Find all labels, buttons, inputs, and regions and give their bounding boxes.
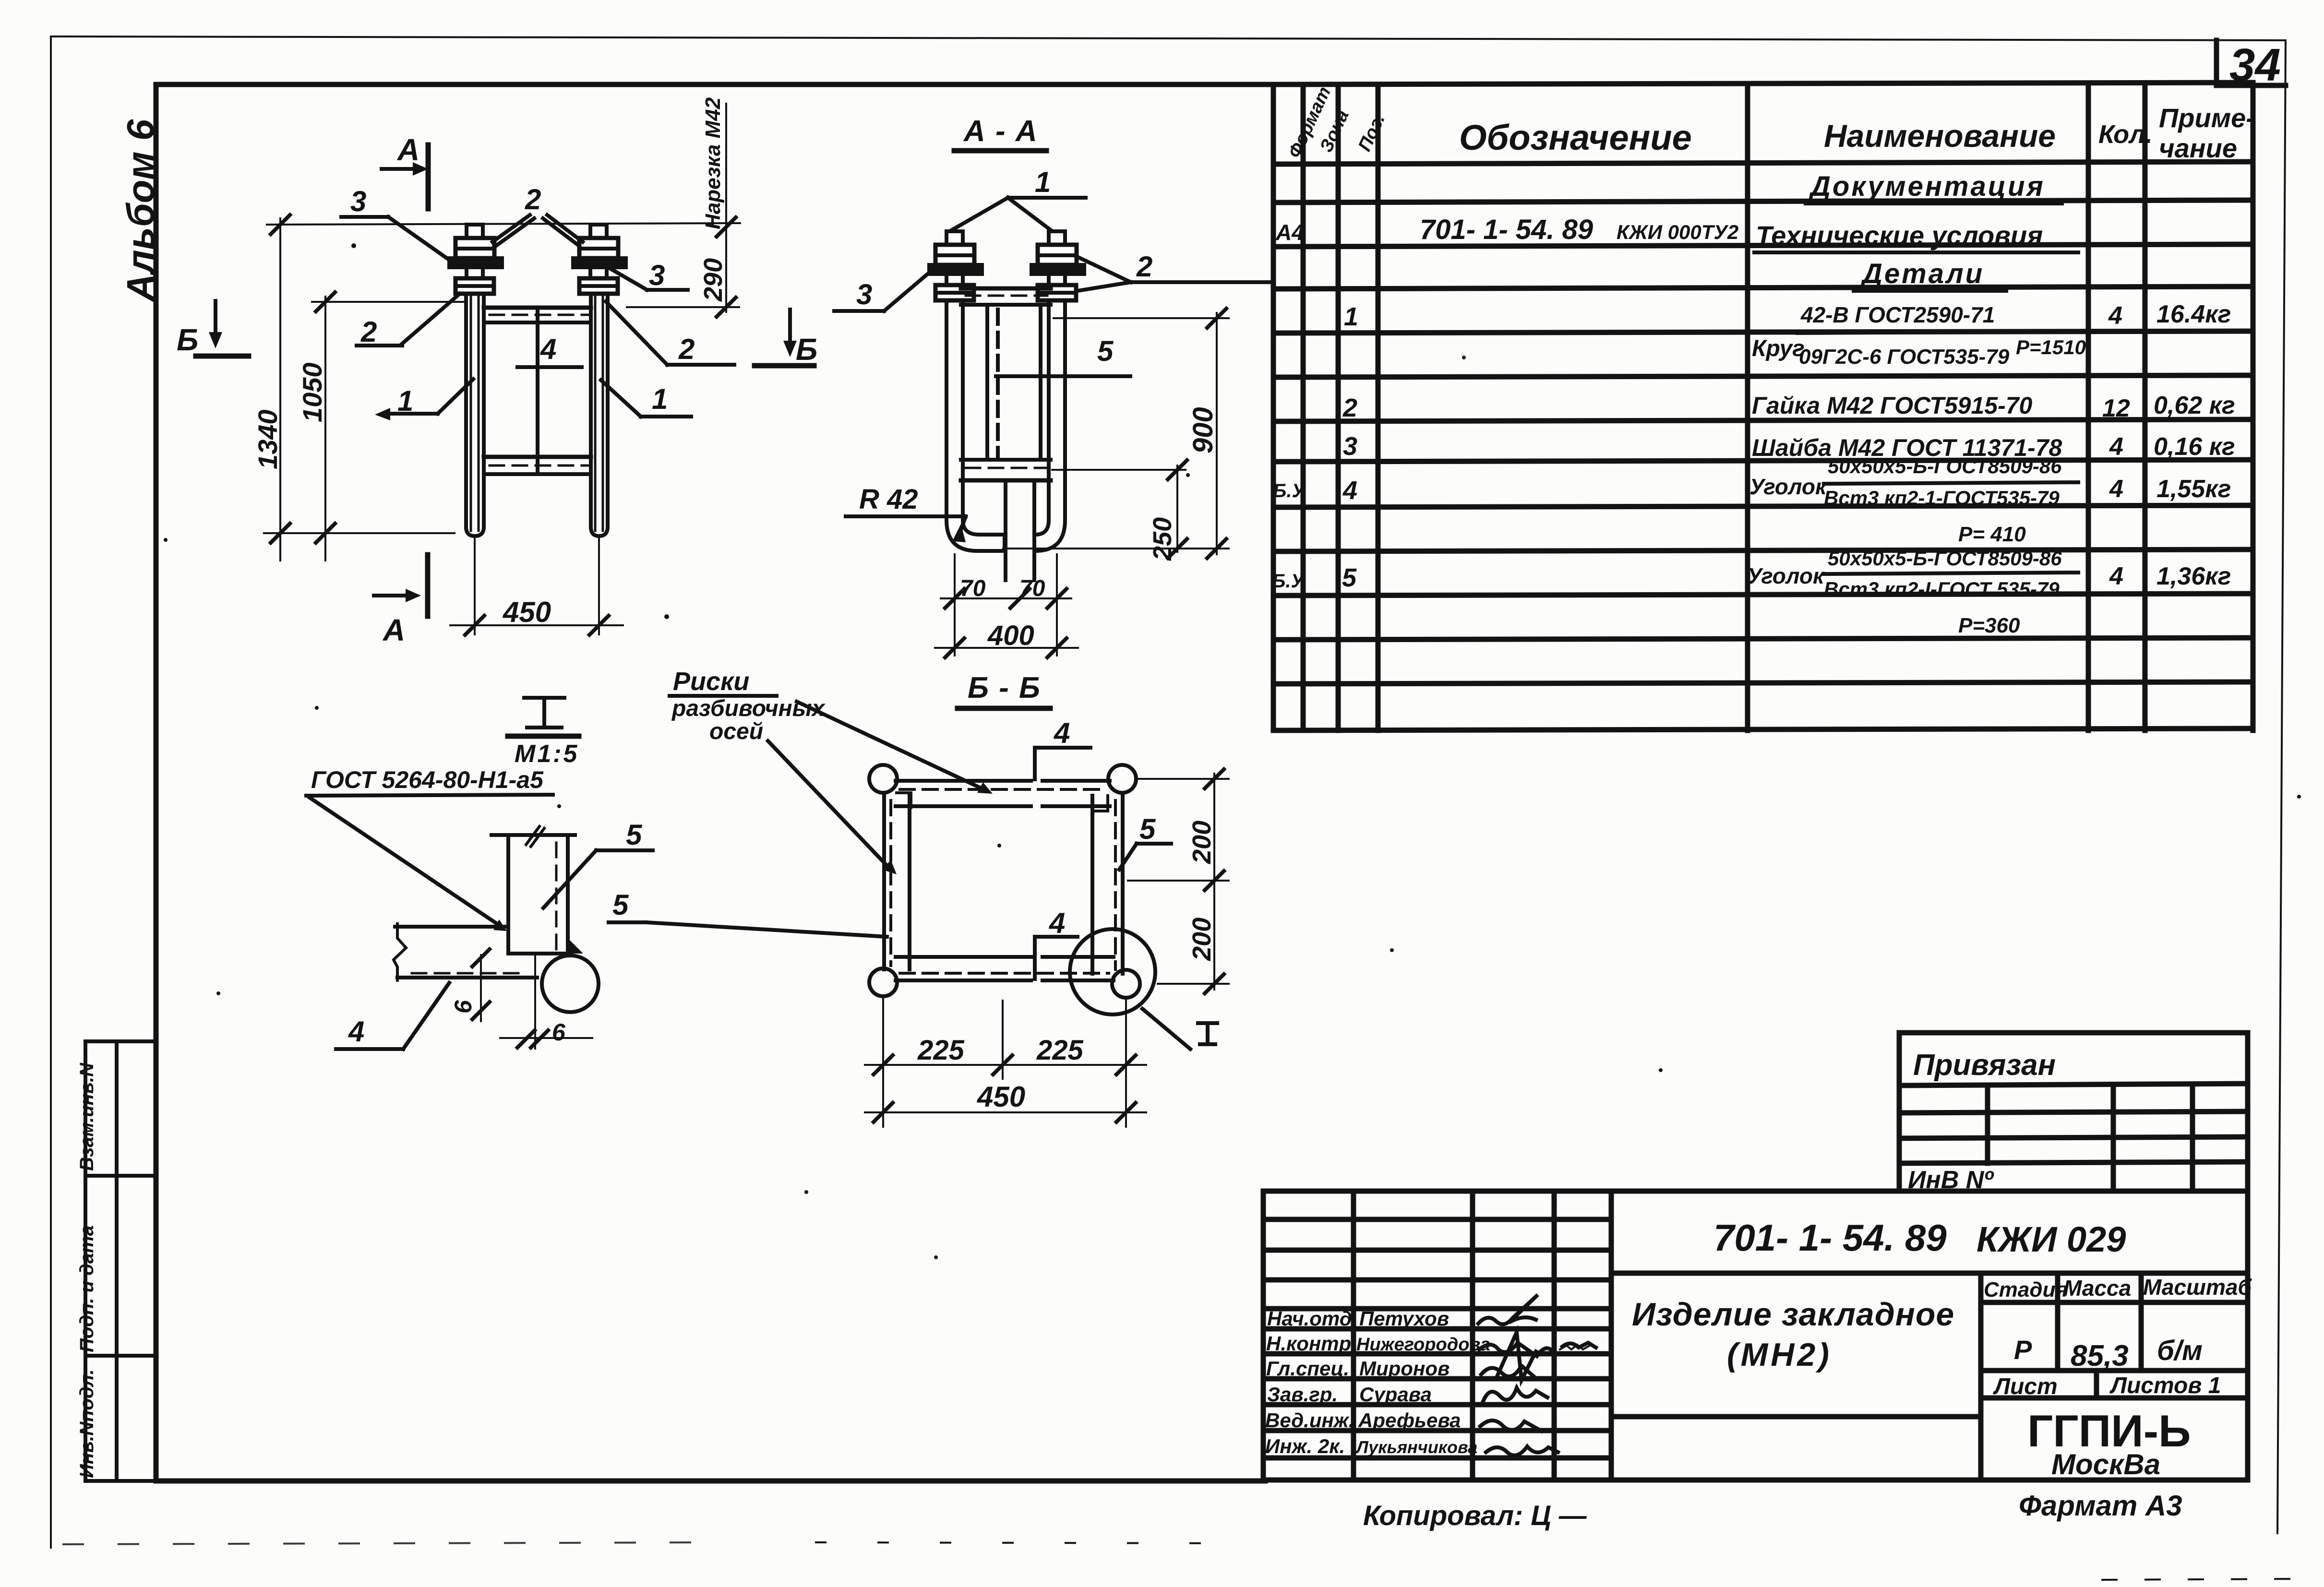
radius note R 42 [846,484,966,542]
label Т (detail reference) [1142,1009,1217,1049]
svg-text:Листов 1: Листов 1 [2109,1373,2221,1398]
dimensions 225 / 225 and 450 (bottom) [865,998,1146,1127]
dimensions 70 / 70 [941,554,1071,610]
svg-text:0,16 кг: 0,16 кг [2154,433,2235,461]
section marker Б (left) [177,301,249,357]
svg-text:А4: А4 [1275,220,1304,245]
title block outline [1263,1191,2248,1480]
anchor rod 1 (left bolt) shank [466,294,484,536]
weld inspection circle [542,955,599,1012]
section marker А (bottom) [374,555,428,647]
table grid horizontals [1273,83,2253,730]
svg-text:Нижегородова: Нижегородова [1356,1335,1490,1355]
svg-text:1: 1 [1035,166,1051,198]
svg-text:чание: чание [2159,133,2237,163]
weld fillet [568,938,583,954]
dimension 400 [935,610,1078,657]
svg-text:4: 4 [540,333,556,365]
left angle (pos.5) [884,796,910,969]
svg-text:М1:5: М1:5 [515,740,579,768]
svg-text:Б.У: Б.У [1272,571,1305,592]
corner bolt circle bottom-left [869,968,897,996]
signature rows: role / name texts [1265,1307,1490,1457]
rod axis extension lines down to 450 dim [474,536,476,634]
top angle pair (pos.4) [896,781,1110,808]
svg-text:Документация: Документация [1808,171,2045,202]
svg-text:1: 1 [652,383,668,415]
svg-text:Нач.отд.: Нач.отд. [1267,1307,1357,1330]
centre vertical strip below frame [1006,480,1034,580]
svg-text:5: 5 [626,819,643,851]
svg-text:4: 4 [2108,302,2122,330]
svg-text:Альбом 6: Альбом 6 [119,119,162,302]
dimension 250 [1052,460,1187,561]
svg-text:Круг: Круг [1752,336,1805,361]
svg-text:Детали: Детали [1860,258,1984,289]
svg-text:200: 200 [1187,821,1216,864]
label 5 (left angle) [609,889,887,937]
corner bolt circle top-right [1108,765,1136,793]
svg-text:Зав.гр.: Зав.гр. [1267,1383,1338,1406]
svg-text:225: 225 [917,1035,965,1066]
svg-text:16.4кг: 16.4кг [2156,300,2231,328]
angle frame top bar (pos.4) [484,308,591,322]
svg-text:85,3: 85,3 [2071,1339,2129,1372]
detail title: I symbol over М1:5 [524,698,564,728]
label 1 (left rod) [375,379,473,420]
U-bolt right shank with hook [1035,300,1065,551]
svg-text:3: 3 [649,259,665,291]
label 4 (horizontal angle) [336,983,449,1049]
svg-text:900: 900 [1187,407,1219,453]
svg-text:Р: Р [2014,1335,2032,1365]
section marker Б (right) [755,310,817,367]
label 2 (right lower nut) [606,301,734,365]
svg-text:б/м: б/м [2157,1335,2203,1366]
svg-text:4: 4 [1054,717,1070,749]
svg-text:2: 2 [1136,251,1152,283]
svg-text:Лукьянчикова: Лукьянчикова [1355,1437,1477,1457]
svg-text:КЖИ 000ТУ2: КЖИ 000ТУ2 [1617,221,1738,243]
dimension 1050 (second vertical) [297,292,335,561]
svg-text:Петухов: Петухов [1359,1307,1449,1330]
svg-text:Арефьева: Арефьева [1358,1409,1461,1432]
svg-text:1,36кг: 1,36кг [2156,562,2231,590]
section marker А (top) [382,132,428,209]
dimension 900 (right vertical) [1003,309,1229,558]
U-bolt left shank with hook [946,300,1005,551]
svg-text:Приме-: Приме- [2159,103,2255,133]
anchor rod 1 (right bolt) shank [591,294,608,536]
scan speckle dots [164,243,2301,1259]
right angle (pos.5) [1092,796,1123,974]
label 1 (right rod) [601,380,691,417]
svg-text:4: 4 [2109,475,2123,503]
svg-text:А - А: А - А [963,115,1038,148]
svg-text:Гл.спец.: Гл.спец. [1266,1357,1349,1380]
svg-text:Нарезка М42: Нарезка М42 [701,97,725,229]
label 2 (top nuts, apex leader) [492,183,583,245]
label 4 (frame angle) [517,333,582,367]
svg-text:Технические условия: Технические условия [1756,220,2043,251]
Стадия / Масса / Масштаб block [1981,1273,2248,1480]
svg-text:Риски: Риски [673,667,749,696]
svg-text:450: 450 [977,1081,1025,1113]
frame centre splice line [536,308,539,474]
label 2 (left lower nut) [357,294,460,348]
svg-text:(МН2): (МН2) [1727,1336,1832,1373]
extension line at rod bottoms [264,532,455,534]
dimension 6 (bottom, weld leg) [500,1019,592,1048]
label 3 (left washer) [341,185,450,261]
axes note: Риски разбивочных осей [670,667,993,874]
svg-text:5: 5 [1097,335,1114,367]
svg-text:А: А [396,132,419,167]
label 5 (vertical angle) [996,335,1130,376]
extension line at bolt tops [267,223,740,225]
svg-text:4: 4 [348,1015,364,1048]
dimension 1340 (left vertical) [252,215,290,561]
dimensions 200 / 200 (right) [1128,769,1229,993]
svg-text:Р=1510: Р=1510 [2016,336,2086,358]
svg-text:250: 250 [1148,517,1177,561]
svg-text:Вст3 кп2-1-ГОСТ535-79: Вст3 кп2-1-ГОСТ535-79 [1824,487,2060,509]
svg-text:Б.У: Б.У [1273,480,1306,501]
svg-text:4: 4 [2109,562,2123,590]
svg-text:701- 1- 54. 89: 701- 1- 54. 89 [1420,214,1593,245]
svg-text:1,55кг: 1,55кг [2156,475,2231,503]
svg-text:2: 2 [360,316,377,348]
svg-text:Подп. и дата: Подп. и дата [76,1225,97,1352]
svg-text:0,62 кг: 0,62 кг [2154,392,2235,419]
sheet number box "34" top right [2216,39,2286,91]
svg-text:1050: 1050 [297,362,327,422]
angle frame bottom bar (section) [961,460,1051,480]
horizontal angle piece (pos.4) [394,924,537,980]
svg-text:Р=360: Р=360 [1958,614,2020,637]
svg-text:5: 5 [1342,563,1357,592]
svg-text:Фармат А3: Фармат А3 [2019,1490,2182,1522]
svg-text:70: 70 [1019,576,1045,601]
svg-text:450: 450 [503,596,551,628]
svg-text:Обозначение: Обозначение [1459,118,1692,157]
label 3 (right washer) [611,259,688,291]
svg-text:42-В ГОСТ2590-71: 42-В ГОСТ2590-71 [1800,302,1995,327]
dimension 450 (bottom horizontal) [450,596,623,635]
svg-text:Лист: Лист [1993,1374,2058,1399]
label 5 (right angle) [1119,813,1171,870]
vertical angle legs [985,305,989,460]
dimension 6 (left, weld leg) [450,949,490,1021]
svg-text:6: 6 [552,1019,566,1046]
signature scribbles [1478,1295,1596,1456]
svg-text:09Г2С-6 ГОСТ535-79: 09Г2С-6 ГОСТ535-79 [1799,345,2010,369]
svg-text:Б: Б [796,332,817,367]
svg-text:МоскВа: МоскВа [2051,1448,2160,1480]
svg-text:Гайка М42 ГОСТ5915-70: Гайка М42 ГОСТ5915-70 [1752,392,2033,419]
label 5 (vertical angle) [543,819,653,908]
svg-text:4: 4 [2109,433,2123,461]
svg-text:6: 6 [450,1000,477,1014]
left margin stamp boxes (Взам.инв.N / Подп. и дата / Инв.N подл.) [76,1041,156,1481]
svg-text:Стадия: Стадия [1984,1278,2068,1301]
svg-text:Н.контр.: Н.контр. [1266,1332,1357,1355]
signature-area row lines [1263,1219,1611,1458]
svg-text:2: 2 [1342,394,1357,422]
svg-text:Миронов: Миронов [1359,1357,1450,1380]
vertical angle piece (pos.5) [491,826,575,954]
svg-text:50х50х5-Б-ГОСТ8509-86: 50х50х5-Б-ГОСТ8509-86 [1828,455,2062,477]
svg-text:осей: осей [709,719,763,744]
signature-area column dividers [1354,1191,1611,1480]
svg-text:2: 2 [525,183,541,215]
svg-text:Инв.Nподл.: Инв.Nподл. [76,1369,97,1478]
svg-text:разбивочных: разбивочных [671,696,826,721]
svg-text:Сурава: Сурава [1359,1383,1432,1406]
svg-text:50х50х5-Б-ГОСТ8509-86: 50х50х5-Б-ГОСТ8509-86 [1828,547,2062,570]
svg-text:Уголок: Уголок [1747,563,1825,588]
svg-text:ГОСТ 5264-80-Н1-а5: ГОСТ 5264-80-Н1-а5 [311,766,544,793]
svg-text:Уголок: Уголок [1749,474,1828,499]
label 2 (nuts) [1075,251,1270,291]
main drawing frame [156,84,1276,1481]
corner detail circle (bottom-right) [1070,929,1155,1014]
svg-text:Изделие закладное: Изделие закладное [1632,1296,1954,1333]
svg-text:200: 200 [1187,918,1216,961]
svg-text:400: 400 [987,620,1034,651]
svg-text:1: 1 [1344,302,1358,331]
svg-text:Б - Б: Б - Б [968,671,1041,704]
svg-text:290: 290 [699,258,728,302]
svg-text:4: 4 [1342,476,1357,505]
label 4 (top angle) [1035,717,1090,779]
svg-text:Наименование: Наименование [1824,118,2056,154]
dimension 290 with thread note (right vertical) [699,97,736,317]
svg-text:3: 3 [350,185,366,217]
svg-text:Поз.: Поз. [1354,111,1389,155]
svg-text:701- 1- 54. 89: 701- 1- 54. 89 [1713,1217,1947,1259]
extension line mid (1050 datum) [312,301,464,303]
angle frame bottom bar (pos.4) [484,457,591,474]
svg-text:4: 4 [1049,907,1065,939]
svg-text:Взам.инв.N: Взам.инв.N [76,1062,97,1171]
U-bolt left top assembly [929,231,982,300]
svg-text:2: 2 [678,333,695,365]
corner bolt circle bottom-right [1112,970,1140,998]
svg-text:Б: Б [177,322,198,357]
svg-text:Привязан: Привязан [1913,1049,2056,1082]
label 3 (washer) [834,273,929,311]
svg-text:Масштаб: Масштаб [2143,1275,2252,1300]
extension line at nut bottom (290 datum) [627,306,739,308]
svg-text:3: 3 [856,278,872,310]
svg-text:225: 225 [1036,1035,1084,1066]
table grid verticals [1273,84,2253,730]
svg-text:3: 3 [1343,432,1357,461]
svg-text:5: 5 [612,889,629,921]
svg-text:КЖИ 029: КЖИ 029 [1977,1219,2126,1259]
svg-text:Масса: Масса [2063,1276,2131,1301]
svg-text:А: А [382,613,405,647]
svg-text:Вед.инж.: Вед.инж. [1265,1409,1354,1432]
svg-text:1340: 1340 [252,409,283,469]
svg-text:12: 12 [2102,394,2130,422]
U-bolt right top assembly [1031,231,1084,300]
label 4 (bottom angle) [1035,907,1078,979]
corner bolt circle top-left [869,765,897,793]
svg-text:Инж. 2к.: Инж. 2к. [1265,1435,1345,1457]
svg-text:Кол.: Кол. [2098,120,2153,149]
anchor rod 1 (left bolt) top assembly [449,225,502,294]
svg-text:70: 70 [960,576,986,601]
svg-text:Р= 410: Р= 410 [1958,523,2026,546]
label 1 (both rods) [951,166,1086,230]
svg-text:Вст3 кп2-I-ГОСТ 535-79: Вст3 кп2-I-ГОСТ 535-79 [1824,578,2060,600]
anchor rod 1 (right bolt) top assembly [573,225,626,294]
angle frame top bar (section) [961,288,1051,305]
svg-text:R 42: R 42 [859,484,918,515]
bottom angle pair (pos.4) [896,957,1114,980]
svg-text:Копировал: Ц —: Копировал: Ц — [1363,1500,1587,1531]
title header: 701-1-54.89 КЖИ 029 [1611,1271,2248,1276]
svg-text:5: 5 [1139,813,1156,845]
